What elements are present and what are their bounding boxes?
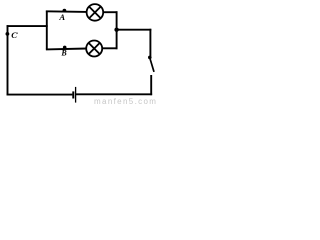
lamp L1 (top bulb, circle with X) [87, 4, 104, 21]
wire: bottom right horizontal (battery + to switch) [76, 93, 152, 95]
wire: horizontal to right side [117, 29, 152, 31]
node A (junction dot) [63, 9, 67, 13]
svg-text:manfen5.com: manfen5.com [94, 97, 157, 106]
wire: right parallel bar (merge junction) [116, 11, 118, 49]
switch S1 blade (open) [150, 59, 154, 72]
svg-text:C: C [11, 30, 17, 40]
wire: bottom left horizontal (left wire to battery -) [7, 94, 73, 96]
wire: middle horizontal from left wire to split node [7, 25, 48, 27]
wire: top branch left lead [46, 10, 87, 13]
lamp L2 (bottom bulb, circle with X) [86, 41, 102, 57]
wire: left vertical (C branch) [7, 25, 9, 95]
wire: bottom branch left lead [46, 48, 87, 51]
svg-text:A: A [58, 12, 65, 22]
wire: left parallel bar (split junction) [46, 11, 48, 50]
wire: top branch right lead [104, 11, 118, 13]
wire: right vertical upper (to switch) [149, 29, 151, 56]
battery positive plate (long thin) [75, 87, 77, 103]
label C prime mark [17, 33, 18, 34]
node C (junction dot) [6, 32, 10, 36]
battery negative plate (short thick) [72, 91, 74, 98]
wire: bottom branch right lead [102, 47, 117, 49]
node: merge junction dot [114, 28, 118, 32]
switch S1 pivot [148, 56, 152, 60]
wire: right vertical lower (from switch to bottom) [150, 75, 152, 95]
node B (junction dot) [63, 46, 67, 50]
svg-text:B: B [60, 49, 67, 58]
